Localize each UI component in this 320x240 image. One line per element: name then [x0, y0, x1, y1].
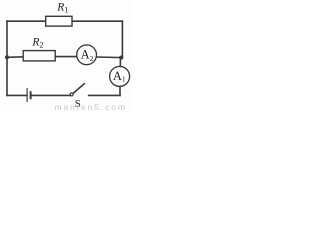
ammeter A2 circle [77, 45, 97, 65]
battery short thick plate [30, 91, 32, 99]
svg-text:R2: R2 [31, 37, 43, 50]
switch pivot circle [70, 93, 73, 96]
battery long plate [26, 88, 28, 102]
resistor R1 [46, 16, 72, 26]
wire right vertical [121, 21, 123, 57]
resistor R2 [23, 51, 55, 61]
node: left middle junction dot [5, 55, 9, 59]
ammeter A1 circle [110, 66, 130, 86]
wire bottom right segment [89, 94, 120, 96]
wire top horizontal [7, 20, 122, 22]
wire A2 to junction [97, 56, 123, 59]
wire R2 to A2 [55, 56, 76, 58]
wire middle left segment [7, 56, 24, 59]
svg-text:A1: A1 [113, 69, 126, 84]
svg-text:R1: R1 [56, 1, 68, 14]
svg-text:manfen5.com: manfen5.com [55, 102, 127, 112]
wire left vertical [6, 21, 8, 95]
wire battery to switch [32, 94, 70, 96]
node: right junction dot [119, 56, 123, 60]
switch S lever [73, 84, 84, 93]
wire A1 to bottom [119, 87, 121, 96]
wire junction down to A1 [119, 58, 121, 67]
wire bottom-left segment [7, 94, 27, 96]
svg-text:A2: A2 [81, 48, 94, 63]
